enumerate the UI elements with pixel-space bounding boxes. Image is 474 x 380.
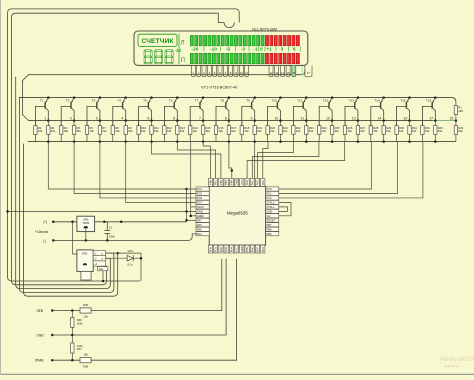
svg-text:10k: 10k	[64, 129, 69, 133]
svg-text:VCC: VCC	[235, 247, 239, 253]
svg-text:91k: 91k	[154, 129, 159, 133]
svg-text:GND: GND	[197, 209, 203, 213]
svg-text:10k: 10k	[89, 129, 94, 133]
junction column 4 lower	[124, 140, 127, 143]
regulator VR1 7805	[77, 216, 95, 231]
junction +5 out b	[120, 221, 123, 224]
resistor R4 10k (base)	[60, 121, 62, 126]
junction ПРАВ	[71, 359, 74, 362]
transistor T16	[422, 96, 436, 125]
junction column 1 lower	[47, 140, 50, 143]
wire PC6 net	[100, 142, 196, 198]
transistor T13	[345, 96, 359, 125]
junction column 7 lower	[202, 140, 205, 143]
transistor T2	[61, 96, 75, 125]
resistor R14 10k (base)	[189, 121, 191, 126]
wire PC5 net	[74, 142, 196, 194]
svg-text:PA1: PA1	[250, 180, 254, 185]
resistor R11 91k (column)	[150, 126, 153, 135]
svg-text:10k: 10k	[244, 129, 249, 133]
svg-text:16: 16	[403, 116, 407, 120]
wire VR2 box-a run	[106, 252, 142, 254]
svg-text:16: 16	[292, 71, 295, 75]
junction column 3 lower	[99, 140, 102, 143]
svg-text:GND: GND	[37, 333, 45, 337]
display divider line	[178, 33, 180, 64]
svg-text:91k: 91k	[180, 129, 185, 133]
svg-text:GND: GND	[235, 179, 239, 185]
svg-text:T15: T15	[400, 99, 406, 103]
svg-text:PD0: PD0	[209, 247, 213, 253]
svg-text:PD2: PD2	[219, 247, 223, 253]
svg-text:VT1-VT16 BC807-40: VT1-VT16 BC807-40	[201, 84, 238, 89]
resistor R32 10k (base)	[421, 121, 423, 126]
wire PC0 net	[279, 142, 372, 189]
transistor T1	[35, 96, 49, 125]
svg-text:13: 13	[352, 116, 356, 120]
svg-text:XTAL1: XTAL1	[266, 205, 275, 209]
resistor R17 91k (column)	[227, 126, 230, 135]
display module HL1 outline	[134, 31, 308, 65]
svg-text:T14: T14	[374, 99, 380, 103]
svg-text:10: 10	[240, 71, 243, 75]
svg-text:AVCC: AVCC	[197, 205, 204, 209]
transistor T10	[268, 96, 282, 125]
svg-text:91k: 91k	[51, 129, 56, 133]
terminal ПРАВ	[51, 359, 54, 362]
svg-text:PA7: PA7	[197, 218, 202, 222]
transistor T8	[216, 96, 230, 125]
wire VD1 loop	[133, 253, 141, 281]
svg-text:(+): (+)	[43, 220, 47, 224]
wire fan left brackets	[152, 142, 221, 179]
svg-text:HL1 ИЛТ5-30М: HL1 ИЛТ5-30М	[252, 28, 277, 32]
wire top inner run	[12, 13, 225, 285]
resistor R31 91k (column)	[408, 126, 411, 135]
junction +5 riser GND	[185, 210, 188, 213]
resistor R3 91k (column)	[47, 126, 50, 135]
junction AREF riser	[189, 215, 192, 218]
svg-text:PC1: PC1	[266, 192, 272, 196]
wire XTAL1 loop	[279, 207, 288, 211]
svg-text:100n: 100n	[109, 235, 116, 239]
junction column 16 lower	[434, 140, 437, 143]
svg-text:+12вольт: +12вольт	[35, 230, 49, 234]
resistor R5 91k (column)	[72, 126, 75, 135]
node 17	[434, 119, 437, 122]
svg-text:ПРАВ: ПРАВ	[35, 359, 43, 363]
svg-text:40a: 40a	[99, 268, 104, 271]
VR2 pin box a	[93, 251, 105, 256]
svg-text:17: 17	[429, 116, 433, 120]
svg-text:10k: 10k	[167, 129, 172, 133]
node 11	[305, 119, 308, 122]
svg-text:PA4: PA4	[197, 232, 202, 236]
emitter bus +5V	[19, 98, 456, 103]
wire +5V top outer run	[8, 9, 240, 281]
svg-text:VR2: VR2	[82, 251, 88, 255]
node 10	[279, 119, 282, 122]
svg-text:91k: 91k	[412, 129, 417, 133]
svg-text:PB7: PB7	[266, 223, 272, 227]
svg-text:12: 12	[270, 71, 273, 75]
svg-text:10: 10	[274, 116, 278, 120]
terminal GND	[51, 334, 54, 337]
svg-text:ЛЕВ: ЛЕВ	[37, 309, 43, 313]
svg-text:T6: T6	[169, 99, 173, 103]
wire XTAL2 loop	[279, 202, 291, 215]
svg-text:R36: R36	[77, 318, 82, 322]
svg-text:-20: -20	[192, 47, 199, 52]
transistor T9	[242, 96, 256, 125]
node 16	[408, 119, 411, 122]
svg-text:PB0: PB0	[209, 180, 213, 186]
svg-text:7: 7	[199, 116, 201, 120]
transistor T15	[397, 96, 411, 125]
resistor R27 91k (column)	[356, 126, 359, 135]
resistor R25 91k (column)	[330, 126, 333, 135]
junction PC4 riser top	[185, 188, 188, 191]
svg-text:-3: -3	[241, 47, 246, 52]
junction column 12 lower	[331, 140, 334, 143]
display pins 1-17	[191, 66, 312, 77]
wire GND to MCU	[52, 259, 226, 335]
svg-text:10k: 10k	[270, 129, 275, 133]
svg-text:17: 17	[307, 71, 310, 75]
svg-text:11: 11	[300, 116, 304, 120]
svg-text:7805: 7805	[82, 221, 89, 225]
svg-text:10k: 10k	[83, 315, 88, 319]
svg-text:15: 15	[450, 116, 454, 120]
wire +12V rail	[53, 221, 186, 223]
resistor R37 100k	[71, 335, 73, 343]
svg-text:91k: 91k	[102, 129, 107, 133]
junction gnd vr1	[85, 239, 88, 242]
terminal ЛЕВ	[51, 309, 54, 312]
junction column 9 lower	[253, 140, 256, 143]
wire PC2 net	[279, 142, 423, 198]
svg-text:13: 13	[275, 71, 278, 75]
resistor R23 91k (column)	[305, 126, 308, 135]
svg-text:VD1: VD1	[128, 249, 134, 253]
resistor R28 10k (base)	[370, 121, 372, 126]
svg-text:T2: T2	[66, 99, 70, 103]
resistor R12 10k (base)	[163, 121, 165, 126]
node 9	[253, 119, 256, 122]
svg-text:10k: 10k	[38, 129, 43, 133]
junction gnd c1	[106, 239, 109, 242]
node 13	[357, 119, 360, 122]
MCU bottom pins	[208, 245, 265, 253]
svg-text:PA6: PA6	[197, 223, 202, 227]
resistor R2 10k (base)	[34, 121, 36, 126]
svg-text:10k: 10k	[425, 129, 430, 133]
junction GND mid	[71, 334, 74, 337]
bottom edge line	[0, 373, 474, 375]
svg-text:PD6: PD6	[250, 247, 254, 253]
VR2 pin box b	[93, 256, 105, 261]
svg-text:T11: T11	[297, 99, 302, 103]
VR2 pin box c	[93, 261, 105, 266]
svg-text:PB4: PB4	[230, 180, 234, 186]
svg-text:PC0: PC0	[266, 187, 272, 191]
svg-text:C1: C1	[109, 226, 113, 230]
svg-text:(-): (-)	[43, 239, 46, 243]
transistor T5	[139, 96, 153, 125]
MCU left pins	[196, 187, 209, 236]
capacitor C1 100n	[104, 222, 110, 241]
svg-text:+1: +1	[266, 47, 272, 52]
svg-text:PA5: PA5	[197, 227, 202, 231]
svg-text:3: 3	[96, 116, 98, 120]
svg-text:AREF: AREF	[197, 214, 205, 218]
svg-text:0: 0	[260, 47, 263, 52]
wire ПРАВ to MCU	[91, 259, 237, 360]
svg-text:PA2: PA2	[256, 180, 260, 185]
svg-text:9: 9	[251, 116, 253, 120]
node 1	[47, 119, 50, 122]
resistor R29 91k (column)	[382, 126, 385, 135]
display 7-segment digit 2	[155, 50, 161, 52]
svg-text:PD5: PD5	[245, 247, 249, 253]
transistor T12	[319, 96, 333, 125]
svg-text:PA3: PA3	[261, 180, 265, 185]
resistor R13 91k (column)	[176, 126, 179, 135]
node 4	[124, 119, 127, 122]
svg-text:PD1: PD1	[214, 247, 218, 253]
svg-text:14: 14	[378, 116, 382, 120]
svg-text:91k: 91k	[77, 129, 82, 133]
svg-text:8.1v: 8.1v	[128, 263, 134, 267]
svg-text:T16: T16	[426, 99, 432, 103]
resistor R36 100k	[71, 311, 73, 318]
diode VD1 8.1v	[106, 257, 128, 259]
svg-text:12: 12	[326, 116, 330, 120]
wire bus-left bottom run	[20, 98, 114, 293]
wire +5 riser	[186, 189, 188, 222]
svg-text:PB2: PB2	[219, 180, 223, 186]
svg-text:10k: 10k	[373, 129, 378, 133]
svg-text:PD4: PD4	[230, 247, 234, 253]
svg-text:GND: GND	[240, 246, 244, 252]
svg-text:PB6: PB6	[266, 227, 272, 231]
svg-text:-5: -5	[226, 47, 231, 52]
resistor R15 91k (column)	[201, 126, 204, 135]
junction column 5 lower	[150, 140, 153, 143]
transistor T6	[164, 96, 178, 125]
transistor T11	[293, 96, 307, 125]
wire column 8 drop	[229, 142, 232, 179]
junction column 10 lower	[279, 140, 282, 143]
junction column 8 lower	[228, 140, 231, 143]
svg-text:PC7: PC7	[197, 201, 203, 205]
junction +12 a	[71, 221, 74, 224]
highlighted net wire (green)	[433, 120, 456, 122]
svg-text:T1: T1	[40, 99, 44, 103]
svg-text:91k: 91k	[257, 129, 262, 133]
wire 40a box drop	[102, 271, 104, 281]
svg-text:6: 6	[293, 47, 296, 52]
node 5	[150, 119, 153, 122]
left edge line	[0, 0, 2, 375]
resistor R18 10k (base)	[241, 121, 243, 126]
resistor R8 10k (base)	[112, 121, 114, 126]
resistor R34 91k	[455, 121, 457, 126]
svg-text:PC6: PC6	[197, 196, 203, 200]
svg-text:91k: 91k	[438, 129, 443, 133]
MCU right pins	[266, 187, 279, 236]
svg-text:T10: T10	[271, 99, 277, 103]
svg-text:PB5: PB5	[266, 232, 272, 236]
svg-text:T8: T8	[220, 99, 224, 103]
node 7	[202, 119, 205, 122]
svg-text:100k: 100k	[77, 344, 83, 348]
svg-text:T12: T12	[323, 99, 329, 103]
svg-text:10k: 10k	[193, 129, 198, 133]
wire jumper hop arc	[224, 23, 234, 28]
svg-text:91k: 91k	[128, 129, 133, 133]
svg-text:3k9: 3k9	[458, 109, 463, 113]
node 12	[331, 119, 334, 122]
svg-text:PB1: PB1	[214, 180, 218, 186]
wire PA7 stub	[187, 219, 197, 221]
junction column 2 lower	[73, 140, 76, 143]
junction VR2 feed	[116, 252, 119, 255]
display СЧЕТЧИК box	[138, 34, 177, 46]
junction +5 riser PA7	[185, 219, 188, 222]
svg-text:PD3: PD3	[224, 247, 228, 253]
node 6	[176, 119, 179, 122]
junction column 6 lower	[176, 140, 179, 143]
svg-text:T9: T9	[246, 99, 250, 103]
wire AVCC net	[191, 206, 196, 208]
svg-text:10k: 10k	[322, 129, 327, 133]
svg-text:П: П	[181, 58, 185, 64]
VR2 mounting tab	[81, 271, 91, 280]
wire ПРАВ in	[52, 359, 80, 361]
svg-text:91k: 91k	[206, 129, 211, 133]
resistor R7 91k (column)	[98, 126, 101, 135]
resistor R6 10k (base)	[86, 121, 88, 126]
junction +5 out a	[103, 221, 106, 224]
svg-text:PC4: PC4	[197, 187, 203, 191]
junction 40a drop	[102, 280, 105, 283]
display 7-segment digit 1	[145, 50, 151, 52]
svg-text:R38: R38	[83, 365, 88, 369]
resistor R22 10k (base)	[292, 121, 294, 126]
resistor R21 91k (column)	[279, 126, 282, 135]
svg-text:VCC: VCC	[240, 179, 244, 185]
svg-text:T5: T5	[143, 99, 147, 103]
svg-text:СЧЕТЧИК: СЧЕТЧИК	[141, 38, 174, 45]
svg-text:10k: 10k	[115, 129, 120, 133]
svg-text:R37: R37	[77, 347, 82, 351]
svg-text:10k: 10k	[399, 129, 404, 133]
VR2 option box	[98, 267, 108, 271]
terminal (+) +12V	[52, 221, 55, 224]
wire PC4 net	[48, 142, 196, 189]
svg-text:T7: T7	[195, 99, 199, 103]
resistor R33 91k (column)	[434, 126, 437, 135]
svg-text:91k: 91k	[231, 129, 236, 133]
transistor T3	[87, 96, 101, 125]
svg-text:Л: Л	[181, 41, 185, 47]
wire PC1 net	[279, 142, 398, 194]
resistor R19 91k (column)	[253, 126, 256, 135]
wire PC7 net	[126, 142, 196, 203]
wire lower-bus-left bottom run	[24, 144, 118, 297]
svg-text:3: 3	[281, 47, 284, 52]
display dB scale numbers	[192, 46, 301, 51]
display 7-segment digit 3	[166, 50, 172, 52]
wire column 9 drop	[254, 142, 256, 179]
display LED bar row Л	[190, 35, 299, 46]
svg-text:PD7: PD7	[256, 247, 260, 253]
resistor R24 10k (base)	[318, 121, 320, 126]
svg-text:T4: T4	[117, 99, 121, 103]
display LED bar row П	[190, 53, 299, 64]
node 14	[382, 119, 385, 122]
node 8	[228, 119, 231, 122]
wire display pin17 +5V line	[22, 71, 305, 121]
resistor R26 10k (base)	[344, 121, 346, 126]
transistor T7	[190, 96, 204, 125]
svg-text:GND: GND	[266, 209, 272, 213]
transistor T14	[371, 96, 385, 125]
svg-text:PB3: PB3	[224, 180, 228, 186]
svg-text:91k: 91k	[283, 129, 288, 133]
node line	[29, 120, 456, 122]
svg-text:10k: 10k	[141, 129, 146, 133]
svg-text:XTAL2: XTAL2	[266, 201, 275, 205]
svg-text:91k: 91k	[360, 129, 365, 133]
junction ЛЕВ	[71, 309, 74, 312]
transistor T4	[113, 96, 127, 125]
wire VR2 input	[73, 222, 77, 254]
svg-text:10k: 10k	[83, 353, 88, 357]
op-amp U1 body placeholder (MCU Mega8535)	[209, 186, 265, 245]
svg-text:T13: T13	[349, 99, 355, 103]
resistor R30 10k (base)	[396, 121, 398, 126]
junction column 13 lower	[357, 140, 360, 143]
wire node-line to port bottom run	[16, 77, 111, 289]
svg-text:radiokot.ru: radiokot.ru	[444, 364, 459, 368]
svg-text:-1: -1	[253, 47, 258, 52]
svg-text:Mega8535: Mega8535	[227, 211, 248, 216]
resistor R10 10k (base)	[138, 121, 140, 126]
node 2	[73, 119, 76, 122]
resistor R20 10k (base)	[267, 121, 269, 126]
svg-text:14: 14	[281, 71, 284, 75]
MCU top pins	[208, 178, 265, 186]
svg-text:5: 5	[147, 116, 149, 120]
wire AREF riser	[190, 142, 192, 216]
svg-text:10k: 10k	[347, 129, 352, 133]
wire ЛЕВ to MCU	[91, 259, 222, 311]
junction column 15 lower	[408, 140, 411, 143]
wire 0V rail	[53, 234, 196, 241]
svg-text:2: 2	[70, 116, 72, 120]
lower bus line	[28, 141, 456, 143]
node 3	[99, 119, 102, 122]
junction column 11 lower	[305, 140, 308, 143]
resistor R1 3k9	[455, 103, 457, 105]
svg-text:dB: dB	[176, 48, 182, 54]
svg-text:PC5: PC5	[197, 192, 203, 196]
resistor R16 10k (base)	[215, 121, 217, 126]
svg-text:10k: 10k	[296, 129, 301, 133]
svg-text:PC2: PC2	[266, 196, 272, 200]
